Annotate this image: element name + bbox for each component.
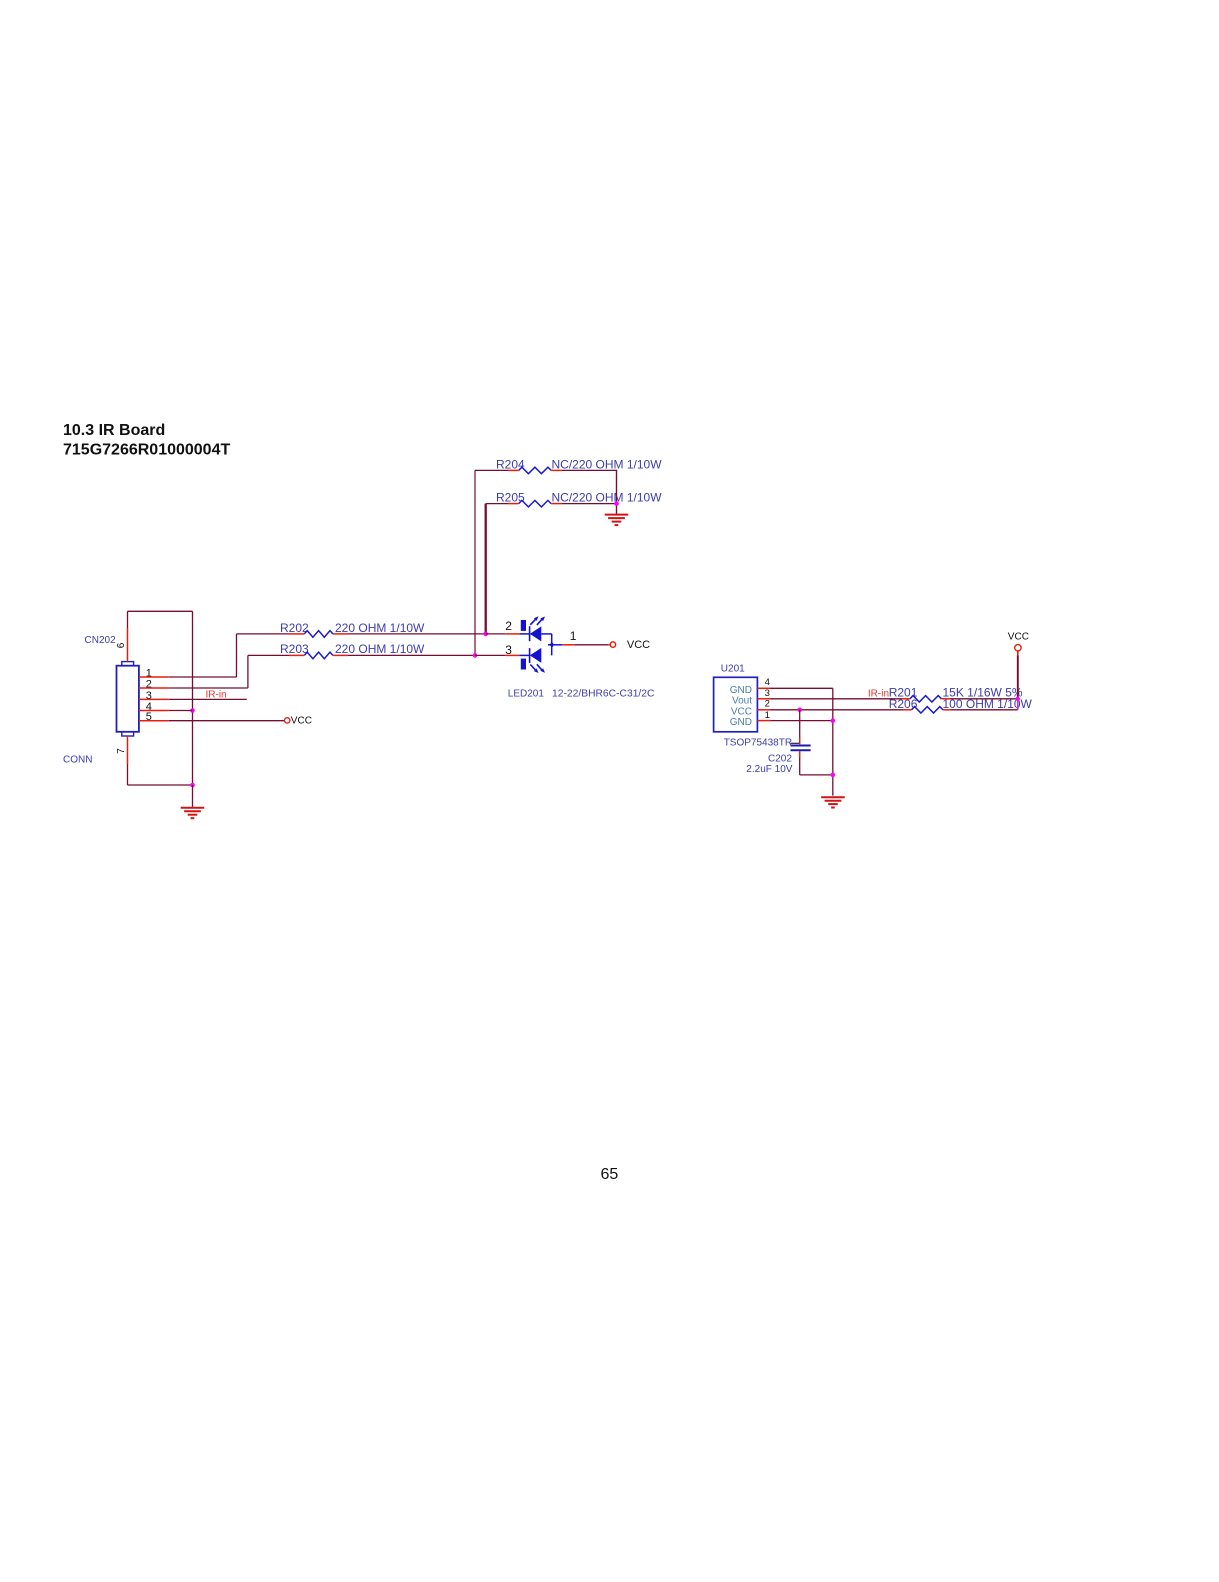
wire vertical from R205 down to R202 row (thick)	[485, 504, 487, 634]
U201 pin 2	[757, 699, 770, 710]
LED B package bar	[521, 659, 526, 670]
resistor R203	[280, 642, 425, 659]
U201 pin 1	[757, 710, 770, 721]
junction dot R201/VCC	[1016, 697, 1020, 701]
svg-text:VCC: VCC	[731, 706, 752, 717]
tick after value	[791, 742, 801, 744]
ground (top, below R204/R205)	[605, 515, 629, 526]
svg-text:VCC: VCC	[291, 716, 312, 727]
wire R202 right	[348, 633, 486, 635]
wire pin1 to R202	[169, 634, 237, 677]
LED201 dual IR LED	[505, 616, 577, 673]
LED B lead	[519, 654, 529, 656]
wire pin3 IR-in	[169, 698, 247, 700]
wire R205 right	[562, 503, 617, 505]
junction dot R202/R205	[483, 632, 488, 637]
svg-text:VCC: VCC	[1008, 632, 1029, 643]
svg-text:3: 3	[505, 643, 512, 657]
LED pin1 arrow	[548, 643, 553, 647]
pin 7 stub	[127, 736, 129, 764]
pin 5	[139, 711, 169, 723]
LED A base wire	[541, 633, 551, 635]
svg-text:3: 3	[765, 688, 770, 699]
resistor R202	[280, 621, 425, 637]
svg-text:220 OHM 1/10W: 220 OHM 1/10W	[335, 621, 425, 635]
svg-text:NC/220 OHM 1/10W: NC/220 OHM 1/10W	[552, 491, 663, 505]
VCC terminal (top right)	[1008, 632, 1029, 652]
junction dot pin2/C202	[797, 708, 802, 713]
svg-text:GND: GND	[730, 685, 752, 696]
title text	[63, 422, 230, 459]
svg-text:TSOP75438TR: TSOP75438TR	[724, 738, 792, 749]
wire LED pin1 to VCC	[575, 644, 609, 646]
svg-text:Vout: Vout	[732, 696, 752, 707]
wire R202 to LED	[486, 633, 506, 635]
LED A lead	[519, 633, 529, 635]
svg-text:2: 2	[765, 699, 770, 710]
capacitor C202	[746, 710, 810, 775]
pin stub LED pin3	[506, 654, 520, 656]
pin stub LED pin1	[562, 644, 575, 646]
VCC terminal (connector pin5)	[285, 716, 312, 727]
VCC terminal (LED)	[610, 639, 650, 651]
wire bottom horizontal	[128, 784, 193, 786]
wire U201 pin1 to gnd	[771, 720, 833, 722]
pin stub LED pin2	[506, 633, 520, 635]
pin 2	[139, 679, 169, 691]
resistor R204	[496, 458, 662, 474]
wire vertical from R204 down to R203 row	[474, 470, 476, 655]
wire R201 to VCC line	[950, 698, 1018, 700]
wire VCC vertical	[1017, 650, 1019, 655]
wire C202 bottom to gnd	[800, 774, 833, 776]
LED201 value label	[508, 689, 655, 700]
svg-text:U201: U201	[721, 663, 745, 674]
LED A triangle	[530, 626, 541, 641]
svg-text:GND: GND	[730, 717, 752, 728]
junction dot R205/R204 net	[614, 501, 619, 506]
wire R204 right	[562, 469, 617, 471]
connector CN202	[63, 635, 139, 765]
junction dot pin4/gnd	[190, 708, 195, 713]
wire R205 left	[486, 503, 508, 505]
pin 4	[139, 701, 169, 713]
svg-text:4: 4	[765, 677, 770, 688]
wire top horizontal	[128, 610, 193, 612]
svg-text:220 OHM 1/10W: 220 OHM 1/10W	[335, 642, 425, 656]
junction dot pin7/gnd	[190, 783, 195, 788]
svg-text:1: 1	[570, 629, 577, 643]
LED B cathode bar line	[529, 648, 531, 663]
svg-text:7: 7	[116, 748, 127, 754]
resistor R205	[496, 491, 662, 507]
junction dot pin1/gnd	[831, 718, 836, 723]
wire R206 to VCC line	[951, 709, 1018, 711]
wire U201 pin3 (IR-in net)	[771, 698, 903, 700]
wire R203 right	[348, 654, 475, 656]
svg-text:NC/220 OHM 1/10W: NC/220 OHM 1/10W	[552, 458, 663, 472]
U201 pin 4	[757, 677, 770, 689]
wire pin5 to VCC	[169, 720, 284, 722]
resistor R206	[889, 697, 1033, 713]
wire pin4 to gnd vertical	[169, 710, 193, 712]
pin 1	[139, 668, 169, 680]
wire pin7 down	[127, 764, 129, 785]
svg-text:IR-in: IR-in	[868, 688, 889, 699]
LED A package bar	[521, 620, 526, 631]
svg-text:65: 65	[601, 1166, 619, 1183]
wire main vertical GND	[192, 611, 194, 785]
wire U201 pin2	[771, 709, 904, 711]
LED B arrow 1	[530, 665, 538, 674]
LED A arrow 2	[537, 617, 545, 626]
ground (below U201)	[821, 797, 845, 807]
LED A cathode bar line	[529, 626, 531, 641]
LED B triangle	[530, 648, 541, 663]
svg-text:1: 1	[765, 710, 770, 721]
svg-text:6: 6	[116, 642, 127, 648]
svg-text:10.3 IR Board: 10.3 IR Board	[63, 422, 165, 439]
LED A arrow 1	[530, 616, 538, 625]
wire R202 left	[237, 633, 290, 635]
LED common vertical	[551, 634, 553, 656]
wire vertical right of R204/R205	[616, 470, 618, 514]
wire pin2 to R203	[169, 655, 248, 688]
wire R203 left	[248, 654, 289, 656]
op-amp U201 (TSOP IR receiver)	[714, 663, 758, 732]
svg-text:2: 2	[505, 619, 512, 633]
svg-text:CN202: CN202	[85, 635, 117, 646]
pin 6 stub	[127, 628, 129, 662]
junction dot C202/gnd	[831, 773, 836, 778]
resistor R201	[889, 685, 1023, 702]
svg-text:2.2uF 10V: 2.2uF 10V	[746, 764, 792, 775]
U201 pin 3	[757, 688, 770, 699]
ground (below connector)	[181, 785, 205, 818]
svg-text:VCC: VCC	[627, 639, 650, 651]
wire U201 pin4 to gnd	[771, 688, 833, 795]
junction dot R203/R204	[473, 653, 478, 658]
pin 3	[139, 690, 169, 702]
svg-text:IR-in: IR-in	[206, 690, 227, 701]
wire R203 to LED	[475, 654, 506, 656]
LED B arrow 2	[537, 664, 545, 673]
wire red nub at VCC	[608, 644, 610, 646]
svg-text:12-22/BHR6C-C31/2C: 12-22/BHR6C-C31/2C	[552, 689, 655, 700]
svg-text:CONN: CONN	[63, 754, 92, 765]
wire R204 left	[475, 469, 508, 471]
svg-text:LED201: LED201	[508, 689, 545, 700]
wire magenta segment VCC	[1017, 699, 1019, 710]
wire pin6 up	[127, 611, 129, 628]
svg-text:715G7266R01000004T: 715G7266R01000004T	[63, 442, 230, 459]
